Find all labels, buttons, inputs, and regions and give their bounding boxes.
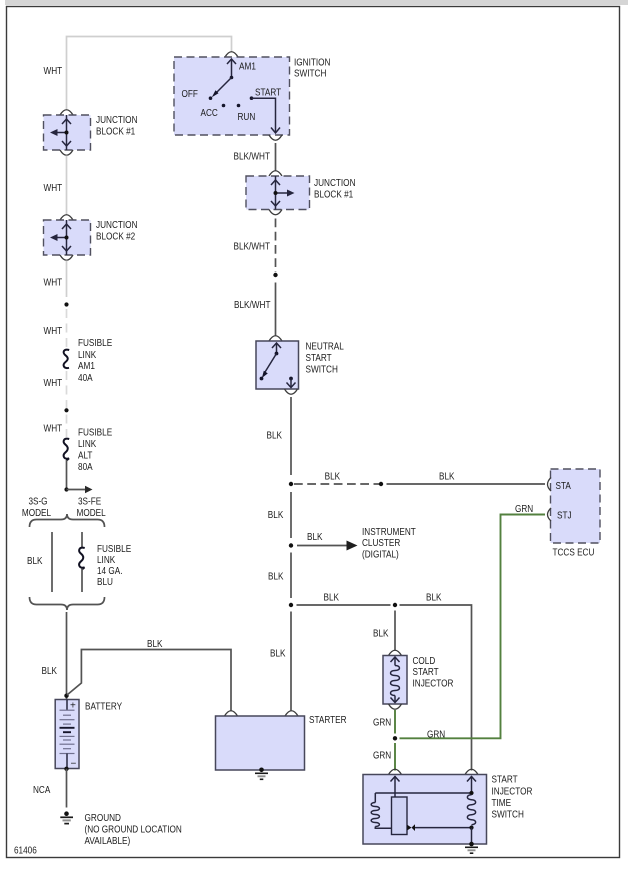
svg-text:OFF: OFF bbox=[182, 89, 198, 100]
fusible link AM1 40A bbox=[64, 350, 70, 368]
svg-text:WHT: WHT bbox=[44, 278, 63, 289]
svg-text:NCA: NCA bbox=[33, 785, 51, 796]
svg-text:80A: 80A bbox=[78, 462, 93, 473]
wire BLK/WHT ignition to junction block bbox=[275, 143, 277, 171]
node trunk to injector branch bbox=[289, 603, 293, 607]
svg-text:WHT: WHT bbox=[44, 183, 63, 194]
node battery negative bbox=[64, 767, 68, 771]
svg-text:BLK/WHT: BLK/WHT bbox=[234, 300, 271, 311]
TCCS ECU bbox=[548, 469, 601, 543]
svg-text:LINK: LINK bbox=[97, 555, 115, 566]
svg-text:AM1: AM1 bbox=[78, 361, 95, 372]
wire BLK/WHT to neutral start switch bbox=[275, 283, 277, 336]
svg-text:GRN: GRN bbox=[373, 718, 391, 729]
node mid STA wire bbox=[379, 482, 383, 486]
svg-text:SWITCH: SWITCH bbox=[306, 365, 338, 376]
wire BLK arrow to instrument cluster bbox=[297, 541, 358, 551]
svg-text:START: START bbox=[255, 87, 281, 98]
wire BLK to TCCS ECU STA bbox=[387, 483, 546, 485]
svg-text:AVAILABLE): AVAILABLE) bbox=[85, 836, 131, 847]
cold start injector bbox=[383, 650, 407, 709]
svg-text:BLK: BLK bbox=[267, 431, 283, 442]
svg-text:−: − bbox=[71, 759, 77, 770]
svg-text:INSTRUMENT: INSTRUMENT bbox=[362, 527, 416, 538]
svg-text:START: START bbox=[413, 667, 439, 678]
svg-text:JUNCTION: JUNCTION bbox=[96, 115, 138, 126]
svg-text:40A: 40A bbox=[78, 373, 93, 384]
svg-text:STA: STA bbox=[556, 481, 572, 492]
neutral start switch bbox=[256, 336, 299, 395]
wire WHT top feed: battery column to ignition switch bbox=[67, 37, 232, 110]
node on WHT wire bbox=[64, 408, 68, 412]
svg-text:JUNCTION: JUNCTION bbox=[314, 178, 356, 189]
svg-text:BLK: BLK bbox=[42, 666, 58, 677]
wire BLK to cold start injector bbox=[394, 611, 396, 651]
wire 3S-G branch BLK bbox=[51, 532, 53, 592]
node battery positive bbox=[64, 694, 68, 698]
svg-text:BLOCK #2: BLOCK #2 bbox=[96, 232, 136, 243]
junction block #2 (left) bbox=[44, 215, 91, 261]
battery bbox=[55, 700, 79, 770]
svg-text:BLK: BLK bbox=[324, 593, 340, 604]
ground (time switch) bbox=[465, 842, 478, 854]
svg-text:FUSIBLE: FUSIBLE bbox=[97, 544, 131, 555]
wire GRN injector to node bbox=[394, 710, 396, 734]
svg-text:GRN: GRN bbox=[373, 751, 391, 762]
svg-text:BLK/WHT: BLK/WHT bbox=[234, 242, 271, 253]
wire WHT dashed below junction block #2 bbox=[66, 261, 68, 349]
node trunk to STA bbox=[289, 482, 293, 486]
svg-text:NEUTRAL: NEUTRAL bbox=[306, 342, 345, 353]
svg-text:BLK: BLK bbox=[268, 510, 284, 521]
svg-text:STJ: STJ bbox=[557, 511, 572, 522]
wire arrow to 3S-FE branch bbox=[67, 486, 93, 493]
ground (starter) bbox=[255, 768, 268, 780]
wire BLK battery feed bbox=[66, 612, 68, 699]
brace top (models group) bbox=[30, 514, 105, 527]
node on WHT wire bbox=[64, 302, 68, 306]
svg-text:COLD: COLD bbox=[413, 656, 436, 667]
svg-text:LINK: LINK bbox=[78, 439, 96, 450]
wire BLK battery to starter bbox=[67, 650, 231, 712]
node BLK/WHT bbox=[273, 273, 277, 277]
ignition switch bbox=[174, 52, 290, 141]
junction block #1 (middle) bbox=[246, 171, 310, 215]
svg-text:(DIGITAL): (DIGITAL) bbox=[362, 550, 399, 561]
starter bbox=[216, 711, 305, 770]
svg-text:JUNCTION: JUNCTION bbox=[96, 220, 138, 231]
svg-text:LINK: LINK bbox=[78, 350, 96, 361]
svg-text:BLK: BLK bbox=[325, 472, 341, 483]
svg-text:3S-FE: 3S-FE bbox=[78, 497, 101, 508]
svg-text:TCCS ECU: TCCS ECU bbox=[553, 548, 595, 559]
svg-text:RUN: RUN bbox=[238, 112, 256, 123]
svg-text:IGNITION: IGNITION bbox=[294, 58, 331, 69]
wire WHT between junction blocks bbox=[66, 156, 68, 215]
svg-text:3S-G: 3S-G bbox=[28, 497, 47, 508]
svg-text:SWITCH: SWITCH bbox=[294, 69, 326, 80]
top gray strip bbox=[5, 0, 628, 5]
svg-text:MODEL: MODEL bbox=[22, 508, 52, 519]
svg-text:61406: 61406 bbox=[14, 846, 37, 857]
svg-text:WHT: WHT bbox=[44, 378, 63, 389]
brace bottom (models join) bbox=[30, 597, 105, 610]
wire WHT dashed below fusible link AM1 bbox=[66, 371, 68, 437]
wire to model split node bbox=[66, 460, 68, 490]
svg-text:AM1: AM1 bbox=[239, 62, 256, 73]
svg-text:MODEL: MODEL bbox=[77, 508, 107, 519]
svg-text:INJECTOR: INJECTOR bbox=[492, 787, 533, 798]
node model split bbox=[64, 487, 68, 491]
svg-text:START: START bbox=[492, 775, 518, 786]
node trunk to instrument cluster bbox=[289, 543, 293, 547]
wire BLK/WHT dashed junction block to node bbox=[275, 219, 277, 273]
node GRN bbox=[393, 736, 397, 740]
svg-text:BATTERY: BATTERY bbox=[85, 702, 122, 713]
svg-text:FUSIBLE: FUSIBLE bbox=[78, 428, 112, 439]
svg-text:SWITCH: SWITCH bbox=[492, 810, 524, 821]
svg-text:BLK: BLK bbox=[147, 639, 163, 650]
svg-text:STARTER: STARTER bbox=[309, 715, 347, 726]
svg-text:WHT: WHT bbox=[44, 326, 63, 337]
svg-text:GRN: GRN bbox=[427, 730, 445, 741]
svg-text:ACC: ACC bbox=[201, 108, 218, 119]
svg-text:BLK: BLK bbox=[270, 649, 286, 660]
svg-text:BLK: BLK bbox=[268, 572, 284, 583]
svg-text:+: + bbox=[70, 701, 76, 712]
svg-text:14 GA.: 14 GA. bbox=[97, 566, 123, 577]
wire BLK main trunk bbox=[290, 397, 292, 711]
svg-text:ALT: ALT bbox=[78, 451, 92, 462]
svg-text:(NO GROUND LOCATION: (NO GROUND LOCATION bbox=[85, 825, 182, 836]
svg-text:BLU: BLU bbox=[97, 577, 113, 588]
svg-text:FUSIBLE: FUSIBLE bbox=[78, 338, 112, 349]
svg-text:TIME: TIME bbox=[492, 798, 512, 809]
svg-text:BLK: BLK bbox=[439, 472, 455, 483]
node cold start branch bbox=[393, 603, 397, 607]
ground (battery) bbox=[60, 811, 73, 823]
svg-text:BLK: BLK bbox=[426, 593, 442, 604]
wire BLK dashed to node bbox=[294, 483, 379, 485]
start injector time switch bbox=[363, 769, 487, 844]
svg-text:START: START bbox=[306, 353, 332, 364]
svg-text:BLK: BLK bbox=[307, 532, 323, 543]
wire 3S-FE branch with fusible link 14GA BLU bbox=[79, 532, 85, 592]
svg-text:BLK: BLK bbox=[373, 629, 389, 640]
svg-text:BLK/WHT: BLK/WHT bbox=[234, 152, 271, 163]
svg-text:BLOCK #1: BLOCK #1 bbox=[96, 127, 136, 138]
svg-text:CLUSTER: CLUSTER bbox=[362, 538, 400, 549]
wire GRN node to TCCS ECU STJ bbox=[400, 515, 546, 739]
svg-text:WHT: WHT bbox=[44, 66, 63, 77]
wire GRN node to time switch bbox=[394, 743, 396, 771]
svg-text:GRN: GRN bbox=[515, 504, 533, 515]
wire NCA battery to ground bbox=[66, 769, 68, 808]
svg-text:INJECTOR: INJECTOR bbox=[413, 679, 454, 690]
svg-text:BLK: BLK bbox=[27, 556, 43, 567]
fusible link ALT 80A bbox=[64, 439, 70, 461]
wire BLK branch to right bbox=[297, 605, 472, 771]
svg-text:GROUND: GROUND bbox=[85, 813, 122, 824]
svg-text:WHT: WHT bbox=[44, 424, 63, 435]
junction block #1 (left) bbox=[44, 110, 91, 156]
svg-text:BLOCK #1: BLOCK #1 bbox=[314, 190, 354, 201]
